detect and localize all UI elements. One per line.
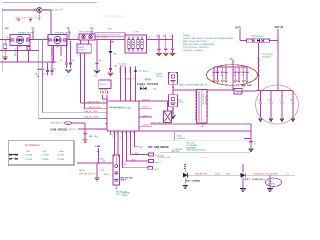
wire sense <box>257 43 259 90</box>
annotation ellipse E1 <box>207 65 258 86</box>
svg-text:PA_OUT1: PA_OUT1 <box>14 48 17 56</box>
sim strip J3 <box>195 89 208 127</box>
fuse F1 <box>234 87 245 94</box>
resistor R2 column <box>4 40 7 57</box>
coupler block U3 <box>79 34 95 40</box>
svg-text:B7749 TL: B7749 TL <box>78 50 86 52</box>
diode D1 <box>108 50 117 55</box>
wire gray stub <box>174 132 176 140</box>
svg-text:1: 1 <box>19 48 20 50</box>
svg-text:3: 3 <box>27 37 28 39</box>
svg-text:10u: 10u <box>233 75 236 77</box>
resistor R4 <box>264 39 270 42</box>
balun U8 <box>169 95 184 107</box>
svg-text:2: 2 <box>109 48 110 50</box>
main rail <box>0 39 173 41</box>
wire stub net3 <box>139 125 152 127</box>
ground G3 <box>94 70 100 73</box>
stair wire 2 <box>117 131 118 155</box>
table row2 values <box>25 159 65 161</box>
stair wire 1 <box>113 131 114 155</box>
svg-text:Z0=50 MSL: Z0=50 MSL <box>270 174 279 176</box>
wire stub net2 <box>139 115 152 117</box>
svg-text:900/1800: 900/1800 <box>268 183 275 185</box>
junctions y62 <box>17 61 48 62</box>
cap bus E1 <box>214 66 247 68</box>
antenna branch 2 wire <box>242 164 244 173</box>
svg-text:NO TL: NO TL <box>116 194 121 196</box>
diode D3 tvs pair <box>140 87 147 90</box>
svg-text:10u: 10u <box>212 75 215 77</box>
capacitor C6 <box>69 41 74 68</box>
filter block U5 <box>125 35 147 53</box>
notes band text B <box>187 143 207 152</box>
svg-text:897G TL: 897G TL <box>156 76 163 78</box>
capacitor C7b <box>163 35 168 56</box>
ground G2 <box>66 70 72 73</box>
capacitor C12 <box>233 67 240 82</box>
svg-text:GSM_ANT_50R: GSM_ANT_50R <box>195 173 208 176</box>
value label bottom <box>122 192 131 197</box>
svg-text:10p TL: 10p TL <box>154 169 160 171</box>
svg-text:GSM_RF_RX18: GSM_RF_RX18 <box>88 107 101 109</box>
capacitor C15 <box>268 91 273 122</box>
svg-text:GSM_SIM_IO_TL: GSM_SIM_IO_TL <box>51 122 65 124</box>
capacitor C5 <box>60 41 68 68</box>
capacitor C14 <box>258 91 263 122</box>
wire vsim y124 <box>150 122 251 124</box>
rf bus y88 <box>173 89 234 91</box>
svg-text:LC FLT: LC FLT <box>133 31 140 33</box>
rail junctions <box>32 39 166 40</box>
svg-text:C88 1u: C88 1u <box>79 170 85 172</box>
svg-text:1u: 1u <box>60 60 62 62</box>
node P2 <box>67 28 70 40</box>
capacitor C1 <box>35 40 41 119</box>
svg-text:TX (2 (0.577ms + 1/8 DUTY): TX (2 (0.577ms + 1/8 DUTY) <box>183 47 209 49</box>
stair wire 4 <box>125 131 126 161</box>
svg-text:100n: 100n <box>220 75 223 77</box>
capacitor C16 <box>279 91 284 122</box>
wire row1 <box>72 123 86 133</box>
wire stub net1 <box>139 107 152 109</box>
stair wire 5 <box>129 131 130 154</box>
table row1 symbol <box>9 154 18 156</box>
wire comb 3 <box>130 67 131 102</box>
sheet border left <box>1 8 3 72</box>
capacitor C17 <box>290 91 295 122</box>
svg-text:1u: 1u <box>170 36 172 38</box>
ground G10 <box>267 188 273 191</box>
capacitor C7 <box>95 40 101 70</box>
svg-text:BATL: BATL <box>236 27 243 30</box>
ground G7 <box>83 140 88 143</box>
svg-text:J284: J284 <box>138 71 142 73</box>
node B+ <box>230 58 234 90</box>
svg-text:33p: 33p <box>53 68 56 70</box>
svg-text:33p: 33p <box>35 73 38 75</box>
node P1 <box>32 28 35 40</box>
capacitor C4 <box>50 46 55 77</box>
pin text stairs <box>113 136 131 138</box>
svg-text:J28: J28 <box>114 65 117 67</box>
wire pin stub <box>0 49 39 51</box>
svg-text:1: 1 <box>56 48 57 50</box>
svg-text:RF COUPLER: RF COUPLER <box>79 31 93 33</box>
svg-text:33p: 33p <box>241 75 244 77</box>
svg-text:(7.4319: (7.4319 <box>57 155 65 157</box>
svg-text:ANT_GSM(RL): ANT_GSM(RL) <box>245 178 265 181</box>
svg-text:TVS 5V: TVS 5V <box>145 79 152 81</box>
comb junctions <box>125 100 141 101</box>
wire comb 1 <box>120 67 121 102</box>
svg-text:1: 1 <box>31 48 32 50</box>
row y147 label <box>135 146 169 149</box>
svg-text:18p: 18p <box>163 36 166 38</box>
svg-text:(7.4769: (7.4769 <box>57 159 65 161</box>
rail pin numbers <box>7 36 150 38</box>
wire comb 4 with diode D2 <box>134 67 149 102</box>
filter block U7 <box>169 72 178 84</box>
svg-text:1u: 1u <box>279 100 281 102</box>
wire sim gnd y131 <box>139 130 252 131</box>
svg-text:VBAT CURRENT PEAK 2A TL 3A: VBAT CURRENT PEAK 2A TL 3A <box>179 83 208 86</box>
notes block <box>183 35 234 52</box>
diode D5 <box>183 173 188 178</box>
wire TX2 <box>39 117 107 119</box>
svg-text:10u: 10u <box>268 100 271 102</box>
motor M1 <box>33 7 42 20</box>
svg-text:BAT_RL: BAT_RL <box>275 26 284 29</box>
svg-text:GSM_RF_TX1800: GSM_RF_TX1800 <box>84 117 99 119</box>
capacitor C7c <box>170 35 175 56</box>
svg-text:LNB: LNB <box>96 146 101 148</box>
rf connector J1 upper <box>99 80 111 94</box>
svg-text:1: 1 <box>163 44 164 46</box>
svg-text:2: 2 <box>104 102 105 104</box>
svg-text:C707 10M: C707 10M <box>205 96 207 105</box>
svg-text:(+)10u/6V: (+)10u/6V <box>177 138 186 140</box>
svg-text:TL: TL <box>254 144 256 146</box>
rf connector J2 <box>104 95 140 136</box>
svg-text:(7.4749: (7.4749 <box>25 155 33 157</box>
wire pin stub <box>60 46 62 57</box>
svg-text:SIM_VCC: SIM_VCC <box>143 99 151 101</box>
svg-text:SMD SILKSCR GOOD: SMD SILKSCR GOOD <box>187 150 207 152</box>
stair wire 6 <box>133 131 134 147</box>
svg-text:SIM_IO: SIM_IO <box>143 115 149 117</box>
resistor R9 <box>27 47 32 51</box>
capacitor C11 <box>220 67 227 82</box>
notes band line 1 <box>160 139 250 141</box>
svg-text:1u: 1u <box>44 68 46 70</box>
svg-text:VIA x4: VIA x4 <box>122 194 127 197</box>
svg-text:ESD TL: ESD TL <box>143 71 149 73</box>
power flag VBAT2 <box>28 16 43 21</box>
svg-text:3 4: 3 4 <box>78 55 80 57</box>
svg-text:GSM900 2W PA: GSM900 2W PA <box>18 31 34 34</box>
svg-text:GSM_RF_RX9: GSM_RF_RX9 <box>88 102 100 104</box>
svg-text:GSM_SIM_VCC_FLT: GSM_SIM_VCC_FLT <box>79 174 95 176</box>
amp block U1 <box>10 35 30 50</box>
wire RX2 <box>85 53 108 109</box>
svg-text:GSM_RF_TX900: GSM_RF_TX900 <box>84 111 98 113</box>
wire ant2 <box>245 174 295 176</box>
svg-text:0.5pF 0402: 0.5pF 0402 <box>155 155 164 157</box>
wire fuse to caps <box>242 90 256 93</box>
stair wire 0 <box>110 131 112 135</box>
svg-text:xx +xx: xx +xx <box>202 157 207 159</box>
wire vibrator feed <box>2 10 51 35</box>
svg-text:10K TL: 10K TL <box>104 174 109 176</box>
cap bus E2 <box>256 90 293 91</box>
wire ant1 <box>188 174 241 176</box>
svg-text:(3 (2.4GHz + 1.8GHz): (3 (2.4GHz + 1.8GHz) <box>183 50 203 52</box>
power flag VBAT1 <box>15 16 26 21</box>
table row1 values <box>25 155 65 157</box>
svg-text:VIB 10mm(coin): VIB 10mm(coin) <box>43 10 59 12</box>
wire drop E3 <box>269 175 271 188</box>
svg-text:RF U.FL: RF U.FL <box>100 84 107 86</box>
annotation ellipse E2 <box>256 85 299 124</box>
comb bus <box>107 100 169 102</box>
diode D4 <box>254 38 262 43</box>
crystal Y1 <box>164 101 172 123</box>
svg-text:165 TL: 165 TL <box>179 102 185 104</box>
notes band line 2 <box>160 151 250 153</box>
antenna branch 1 wire <box>184 163 185 173</box>
ground G11 <box>240 178 246 192</box>
value label magenta rows <box>121 161 128 166</box>
svg-text:(7.7669: (7.7669 <box>42 155 50 157</box>
diode D6 <box>241 173 246 178</box>
ground G1 <box>3 57 8 60</box>
svg-text:VSIM_GSM C_SIM_VCC: VSIM_GSM C_SIM_VCC <box>151 122 172 124</box>
value label U7 <box>156 74 163 78</box>
svg-text:B=3435 TL: B=3435 TL <box>263 57 272 59</box>
svg-text:PWR: (/3 PULSE + (/)GSM BURST: PWR: (/3 PULSE + (/)GSM BURST <box>183 44 215 46</box>
resistor R3 <box>247 39 253 42</box>
svg-text:ANT_GSM(M): ANT_GSM(M) <box>186 180 201 183</box>
annotation oval E3 <box>266 178 282 186</box>
ground G9 <box>183 178 189 189</box>
svg-text:ANT_GSM_BRGND: ANT_GSM_BRGND <box>148 146 169 149</box>
wire row2 <box>78 128 107 130</box>
capacitor C3 <box>44 63 49 76</box>
svg-text:CPW: CPW <box>226 174 230 176</box>
antenna switch U4 <box>95 33 125 39</box>
net label GSM_BRGND b <box>50 129 76 132</box>
node LNB <box>96 146 101 163</box>
svg-text:Pin Variations: Pin Variations <box>25 144 40 147</box>
ground G8 <box>94 178 99 181</box>
svg-text:PRTR5V0U2X: PRTR5V0U2X <box>252 36 265 38</box>
svg-text:100n: 100n <box>94 136 98 138</box>
row y170 resistor R7 <box>123 166 160 170</box>
capacitor C13 <box>241 67 248 82</box>
wire pin stub <box>28 46 30 62</box>
amp block U2 <box>48 35 67 50</box>
svg-text:1/3Wxx: 1/3Wxx <box>183 35 190 37</box>
ground G6 <box>249 149 254 152</box>
row y157 wire <box>131 153 165 158</box>
svg-text:BATT: 3.2V (/)4.2V TYP3.6: BATT: 3.2V (/)4.2V TYP3.6 <box>183 40 208 43</box>
svg-text:100u: 100u <box>258 100 262 102</box>
svg-text:TL: TL <box>287 174 289 176</box>
wire BATL drop <box>239 30 241 41</box>
wire RX1 <box>81 53 108 103</box>
wire U7-U8 <box>172 84 174 94</box>
value label sense <box>263 54 273 58</box>
svg-text:NOTES: USE 1uF/16V, 10V DECOUP: NOTES: USE 1uF/16V, 10V DECOUPLE, PER DE… <box>183 38 234 40</box>
capacitor C18 <box>244 124 256 148</box>
svg-text:3: 3 <box>64 37 65 39</box>
capacitor C10 <box>212 67 219 82</box>
ground G4 <box>108 73 114 76</box>
svg-text:ANT SWITCH MODULE SW: ANT SWITCH MODULE SW <box>97 34 121 37</box>
svg-text:(7.3899: (7.3899 <box>42 159 50 161</box>
ground G5 <box>170 107 175 119</box>
svg-text:1 2 3 4 5 6 7 8 9 0: 1 2 3 4 5 6 7 8 9 0 <box>96 37 108 39</box>
stair wire 3 <box>121 131 122 168</box>
notes band text A <box>177 136 186 141</box>
value label U9 <box>116 192 127 197</box>
svg-text:GSM_BRGND: GSM_BRGND <box>50 129 67 132</box>
row y163 resistor R6 <box>127 160 162 164</box>
svg-text:(7.4129: (7.4129 <box>25 159 33 161</box>
svg-text:R33: R33 <box>94 76 97 78</box>
faint highlight <box>102 15 125 18</box>
saw filter U6 <box>77 40 91 57</box>
wire bus y62 <box>0 61 57 63</box>
svg-text:27pF TL: 27pF TL <box>155 162 162 164</box>
svg-text:33p: 33p <box>156 36 159 38</box>
wire bottom center <box>77 162 113 163</box>
wire batt link <box>240 40 278 42</box>
wire BAT_RL drop <box>277 29 279 90</box>
detector block U9 <box>113 155 120 190</box>
svg-text:F1: F1 <box>243 87 245 89</box>
svg-text:33p: 33p <box>290 100 293 102</box>
capacitor C7a <box>156 35 162 56</box>
svg-text:GSM1_OUT: GSM1_OUT <box>126 79 137 81</box>
svg-text:10p: 10p <box>99 60 102 62</box>
net label dark rows <box>120 176 132 181</box>
capacitor C19 <box>83 134 97 140</box>
wire stub <box>110 40 112 51</box>
svg-text:(0R0/TL): (0R0/TL) <box>68 129 75 131</box>
wire J2 to U9 <box>103 95 108 99</box>
sheet border top <box>3 2 98 4</box>
svg-text:Z0=50: Z0=50 <box>215 174 220 176</box>
wire drop <box>96 163 98 178</box>
svg-text:SIM_CLK: SIM_CLK <box>142 107 150 109</box>
svg-text:SIM_RST: SIM_RST <box>142 125 149 127</box>
value label above wire <box>99 159 106 163</box>
svg-text:R55: R55 <box>101 170 104 172</box>
svg-text:ANT 50R: ANT 50R <box>172 150 180 153</box>
svg-text:GND TL: GND TL <box>120 180 126 182</box>
svg-text:18p: 18p <box>43 73 46 75</box>
resistor oval R5 <box>65 122 72 125</box>
node P3 <box>91 28 94 34</box>
wire net B <box>50 46 53 64</box>
wire net A <box>14 46 17 63</box>
svg-text:SW6 GSM: SW6 GSM <box>99 89 108 91</box>
svg-text:GSM_ANT_RL_50R: GSM_ANT_RL_50R <box>253 173 269 176</box>
capacitor C2 <box>41 40 46 113</box>
capacitor C8 <box>94 53 112 77</box>
svg-text:GND GND GND GND: GND GND GND GND <box>114 107 132 109</box>
svg-text:33p: 33p <box>71 60 74 62</box>
table box <box>8 141 74 165</box>
svg-text:ANT(x): ANT(x) <box>121 163 127 166</box>
wire TX1 <box>42 112 107 114</box>
svg-text:J30: J30 <box>89 136 92 138</box>
table row2 symbol <box>9 158 18 160</box>
wire comb 2 <box>125 67 126 102</box>
